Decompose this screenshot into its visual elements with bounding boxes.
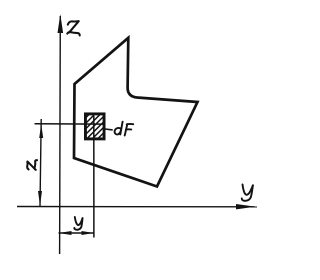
dimension label z (rotated) bbox=[27, 160, 37, 170]
y dimension left arrowhead bbox=[59, 231, 72, 235]
z dimension top arrowhead bbox=[39, 124, 43, 138]
label dF bbox=[115, 122, 134, 136]
element dF square bbox=[85, 114, 104, 139]
horizontal extension line through element bbox=[35, 123, 104, 125]
z axis arrowhead bbox=[58, 14, 64, 33]
leader line to dF bbox=[105, 128, 113, 131]
cross-section outline bbox=[74, 38, 198, 187]
z dimension bottom arrowhead bbox=[38, 191, 42, 206]
z dimension line bbox=[40, 119, 41, 206]
y dimension right arrowhead bbox=[82, 231, 94, 235]
y axis arrowhead bbox=[236, 204, 256, 209]
z axis line bbox=[59, 16, 62, 254]
y dimension line bbox=[59, 232, 95, 234]
vertical extension line through element bbox=[93, 116, 95, 238]
dimension label y bbox=[74, 217, 82, 230]
axis label y bbox=[242, 184, 253, 200]
axis label Z bbox=[67, 21, 79, 35]
y axis line bbox=[17, 206, 257, 208]
